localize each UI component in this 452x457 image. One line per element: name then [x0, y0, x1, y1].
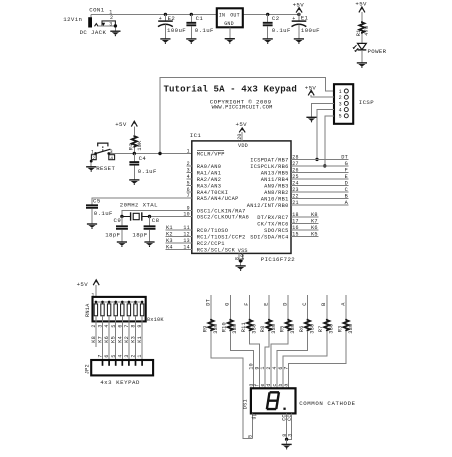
+5V supply at reset	[115, 121, 137, 128]
svg-text:3: 3	[287, 434, 293, 437]
svg-text:RA1/AN1: RA1/AN1	[197, 171, 221, 177]
svg-text:K6: K6	[311, 225, 318, 231]
svg-text:C9: C9	[114, 217, 122, 224]
svg-text:D: D	[345, 180, 348, 186]
pin 10 OSC2/CLKOUT/RA6	[183, 212, 249, 221]
svg-text:0.1uF: 0.1uF	[272, 27, 291, 34]
svg-text:K8: K8	[91, 336, 97, 343]
svg-text:7: 7	[98, 354, 104, 357]
op-amp U1: microcontroller IC1 PIC16F722 box	[190, 132, 296, 263]
wire 12V rail left	[91, 13, 217, 15]
svg-text:WWW.PICCIRCUIT.COM: WWW.PICCIRCUIT.COM	[212, 105, 273, 111]
+5V supply at RN1A	[77, 280, 100, 288]
svg-text:2: 2	[92, 155, 95, 161]
svg-text:K4: K4	[117, 336, 123, 343]
pin 15 SDI/SDA/RC4 / node K5	[250, 231, 318, 240]
node K4 (pin 14 stub)	[166, 244, 192, 250]
svg-text:4: 4	[339, 108, 342, 114]
svg-text:5: 5	[339, 114, 342, 120]
svg-text:3: 3	[109, 21, 112, 27]
ground of regulator	[225, 39, 235, 44]
wire ICSP pin4 to ICSPDAT	[317, 110, 334, 160]
svg-text:K8: K8	[311, 212, 318, 218]
svg-text:R7: R7	[318, 326, 324, 333]
svg-text:3: 3	[110, 149, 113, 155]
svg-text:R1: R1	[356, 30, 362, 37]
svg-text:AN9/RB3: AN9/RB3	[264, 184, 288, 190]
connector CON1 DC JACK	[63, 7, 115, 36]
svg-text:K3: K3	[166, 238, 173, 244]
wire VSS to ground	[240, 261, 242, 266]
svg-text:R3: R3	[337, 326, 343, 333]
svg-text:470: 470	[364, 26, 370, 36]
svg-text:RN1A: RN1A	[85, 303, 91, 317]
svg-text:VDD: VDD	[238, 143, 248, 149]
svg-text:AN8/RB2: AN8/RB2	[264, 190, 288, 196]
junction E1 / +5V	[297, 13, 300, 16]
resistor R3 330	[337, 319, 354, 334]
+5V supply at ICSP	[305, 84, 317, 95]
svg-text:SDO/RC5: SDO/RC5	[264, 228, 288, 234]
svg-text:1: 1	[91, 149, 94, 155]
wire F to resistor	[249, 295, 251, 319]
wire +5V to rail	[298, 12, 300, 14]
svg-text:1: 1	[339, 89, 342, 95]
capacitor C2	[263, 14, 291, 39]
wire OSC1 to crystal	[122, 210, 192, 216]
svg-text:IN: IN	[219, 13, 225, 19]
svg-text:0.1uF: 0.1uF	[94, 210, 113, 217]
wire DT to display pin 5	[211, 331, 252, 438]
svg-text:+5V: +5V	[293, 1, 305, 8]
capacitor C9 18pF	[105, 217, 128, 243]
svg-text:18pF: 18pF	[132, 231, 147, 238]
svg-text:DC JACK: DC JACK	[80, 29, 107, 36]
svg-text:1: 1	[137, 354, 143, 357]
svg-text:2: 2	[187, 161, 190, 167]
wire CC to ground	[286, 439, 288, 444]
resistor R6 330	[299, 319, 316, 334]
wire ICSP pin3 to ground	[312, 103, 335, 117]
capacitor E2 (electrolytic)	[158, 14, 186, 39]
svg-text:OSC2/CLKOUT/RA6: OSC2/CLKOUT/RA6	[197, 215, 249, 221]
svg-text:AN11/RB4: AN11/RB4	[261, 177, 289, 183]
svg-text:R9: R9	[202, 326, 208, 333]
svg-text:20: 20	[237, 133, 243, 139]
ground of CON1	[110, 31, 120, 36]
svg-text:K5: K5	[111, 336, 117, 343]
wire G to display	[230, 331, 253, 388]
svg-text:Tutorial 5A - 4x3 Keypad: Tutorial 5A - 4x3 Keypad	[164, 84, 297, 95]
svg-text:AN10/RB1: AN10/RB1	[261, 197, 289, 203]
svg-text:OUT: OUT	[230, 13, 240, 19]
wire E to display	[265, 331, 269, 388]
wire K8 stub	[95, 321, 97, 347]
svg-text:RC2/CCP1: RC2/CCP1	[197, 241, 225, 247]
svg-text:23: 23	[292, 187, 298, 193]
ground of C5	[87, 224, 97, 229]
svg-text:RA2/AN2: RA2/AN2	[197, 177, 221, 183]
svg-text:100uF: 100uF	[301, 27, 320, 34]
svg-text:330: 330	[213, 324, 219, 334]
pin 24 AN9/RB3 / node D	[264, 180, 348, 189]
pin 6 RA4/T0CKI	[186, 187, 228, 196]
pin 2 RA0/AN0	[186, 161, 221, 170]
wire K2 to JP2	[128, 321, 130, 360]
svg-text:4: 4	[117, 354, 123, 357]
svg-text:+: +	[159, 16, 162, 22]
ground of ICSP	[306, 117, 316, 122]
svg-text:RC3/SCL/SCK: RC3/SCL/SCK	[197, 248, 236, 254]
svg-text:K6: K6	[104, 336, 110, 343]
svg-text:R11: R11	[241, 322, 247, 332]
pin 13 RC2/CCP1	[183, 238, 224, 247]
MCLR overline	[197, 150, 224, 152]
svg-text:C5: C5	[93, 198, 101, 205]
svg-text:E1: E1	[301, 15, 309, 22]
svg-text:a: a	[284, 383, 290, 386]
crystal X1 20MHz	[122, 212, 150, 220]
connector JP2 4x3 KEYPAD	[84, 360, 153, 386]
pin 18 DT/RX/RC7 / node K8	[257, 212, 318, 221]
wire RA5 to C5	[92, 198, 192, 205]
pin 26 AN13/RB5 / node F	[261, 167, 349, 176]
ground of SW1	[86, 167, 96, 172]
junction ICSPCLK	[323, 164, 326, 167]
svg-text:C4: C4	[139, 155, 147, 162]
svg-text:R6: R6	[299, 326, 305, 333]
svg-text:24: 24	[292, 181, 298, 187]
wire DT to resistor	[210, 295, 212, 319]
+5V supply at VDD	[236, 121, 248, 132]
svg-text:C: C	[345, 187, 348, 193]
+5V supply for power LED	[355, 1, 367, 13]
svg-text:2: 2	[110, 15, 113, 21]
svg-text:R10: R10	[222, 322, 228, 332]
svg-text:+: +	[292, 16, 295, 22]
svg-text:21: 21	[292, 200, 298, 206]
wire C to resistor	[307, 295, 309, 319]
node K1 (pin 11 stub)	[166, 225, 192, 231]
wire OSC2 to crystal	[150, 216, 192, 218]
svg-text:COMMON CATHODE: COMMON CATHODE	[299, 400, 355, 407]
junction ICSP wire	[158, 152, 161, 155]
ground of VSS	[236, 266, 246, 271]
svg-text:330: 330	[329, 324, 335, 334]
svg-text:dp: dp	[252, 413, 258, 419]
svg-text:RC0/T1OSO: RC0/T1OSO	[197, 228, 228, 234]
ground of E1	[294, 39, 304, 44]
svg-text:K4: K4	[166, 244, 173, 250]
svg-text:17: 17	[292, 219, 298, 225]
svg-text:3: 3	[124, 354, 130, 357]
svg-text:C2: C2	[272, 15, 280, 22]
svg-text:GND: GND	[224, 21, 234, 27]
svg-text:SDI/SDA/RC4: SDI/SDA/RC4	[250, 235, 288, 241]
ground of C8	[144, 242, 154, 247]
svg-text:1: 1	[187, 149, 190, 155]
ground of C2	[263, 39, 273, 44]
svg-text:330: 330	[348, 324, 354, 334]
svg-text:RA5/AN4/UCAP: RA5/AN4/UCAP	[197, 196, 239, 202]
capacitor C8 18pF	[132, 217, 159, 243]
wire K1 to JP2	[141, 321, 143, 360]
svg-text:4x3 KEYPAD: 4x3 KEYPAD	[100, 379, 140, 386]
svg-text:4: 4	[110, 155, 113, 161]
wire K7 to JP2	[102, 321, 104, 360]
svg-text:8x10K: 8x10K	[147, 317, 165, 323]
svg-text:CON1: CON1	[89, 7, 104, 14]
wire display pin 8 stub	[286, 413, 288, 439]
svg-text:OSC1/CLKIN/RA7: OSC1/CLKIN/RA7	[197, 209, 246, 215]
svg-text:0.1uF: 0.1uF	[195, 27, 214, 34]
svg-text:B: B	[345, 193, 348, 199]
pushbutton SW1 RESET	[90, 143, 116, 172]
pin 14 RC3/SCL/SCK	[183, 245, 235, 254]
wire K3 to JP2	[135, 321, 137, 360]
wire D to display	[271, 331, 288, 388]
junction C1	[190, 13, 193, 16]
svg-text:19: 19	[240, 254, 246, 260]
ground of power LED	[357, 63, 367, 68]
svg-text:20MHz XTAL: 20MHz XTAL	[120, 201, 158, 208]
resistor R5 330	[280, 319, 297, 334]
svg-text:POWER: POWER	[368, 48, 387, 55]
voltage regulator VR1	[217, 8, 243, 38]
ground of C9	[117, 242, 127, 247]
svg-text:DT/RX/RC7: DT/RX/RC7	[257, 215, 288, 221]
svg-text:+5V: +5V	[77, 281, 89, 288]
svg-text:K5: K5	[311, 231, 318, 237]
svg-text:5: 5	[111, 354, 117, 357]
wire +5V to R4	[133, 126, 135, 135]
svg-text:C8: C8	[152, 217, 160, 224]
wire A to display	[289, 331, 347, 388]
svg-text:K7: K7	[98, 336, 104, 343]
svg-text:E: E	[345, 174, 348, 180]
svg-text:5: 5	[247, 435, 253, 438]
resistor R8 330	[260, 319, 277, 334]
wire display pin 3 stub	[287, 413, 292, 439]
svg-text:RA0/AN0: RA0/AN0	[197, 164, 221, 170]
svg-text:330: 330	[252, 324, 258, 334]
resistor R11 330	[241, 319, 258, 334]
wire E to resistor	[268, 295, 270, 319]
wire B to display	[283, 331, 327, 388]
svg-text:K2: K2	[166, 231, 173, 237]
pin 5 RA3/AN3	[186, 181, 221, 190]
resistor network RN1A 8x10K	[85, 297, 165, 323]
node K3 (pin 13 stub)	[166, 238, 192, 244]
pin 28 ICSPDAT/RB7 / node DT	[250, 154, 348, 163]
wire 5V rail right	[243, 13, 299, 15]
svg-text:330: 330	[271, 324, 277, 334]
pin 21 AN12/INT/RB0 / node A	[247, 200, 349, 209]
wire F to display	[250, 331, 260, 388]
wire display pin 5 stub	[251, 413, 253, 438]
junction E2	[164, 13, 167, 16]
wire B to resistor	[326, 295, 328, 319]
pin 1 MCLR/VPP	[187, 149, 225, 158]
wire +5V to RN1A common	[95, 285, 97, 302]
resistor R4 10K	[128, 135, 143, 150]
wire R1 to LED	[361, 34, 363, 44]
ground of E2	[160, 39, 170, 44]
wire ICSP pin5 to ICSPCLK	[325, 116, 334, 166]
svg-text:K1: K1	[166, 225, 173, 231]
junction CON1 pin3	[114, 24, 117, 27]
svg-text:K2: K2	[124, 336, 130, 343]
svg-text:K3: K3	[131, 336, 137, 343]
svg-text:27: 27	[292, 161, 298, 167]
capacitor C4	[129, 154, 157, 180]
resistor R7 330	[318, 319, 335, 334]
resistor R1 470	[356, 21, 370, 36]
wire MCLR to ICSP pin1	[160, 77, 334, 153]
junction CC	[285, 438, 288, 441]
wire K4 to JP2	[121, 321, 123, 360]
svg-text:F: F	[345, 167, 348, 173]
svg-text:AN13/RB5: AN13/RB5	[261, 171, 289, 177]
wire K5 to JP2	[115, 321, 117, 360]
pin 9 OSC1/CLKIN/RA7	[187, 206, 246, 215]
svg-text:6: 6	[104, 354, 110, 357]
svg-text:K7: K7	[311, 218, 318, 224]
wire K6 to JP2	[108, 321, 110, 360]
svg-text:2: 2	[339, 95, 342, 101]
svg-text:RA3/AN3: RA3/AN3	[197, 184, 221, 190]
capacitor C1	[186, 14, 214, 39]
pin 16 SDO/RC5 / node K6	[264, 225, 318, 234]
svg-text:5: 5	[187, 181, 190, 187]
svg-text:3: 3	[339, 101, 342, 107]
svg-text:26: 26	[292, 168, 298, 174]
junction VSS	[239, 259, 242, 262]
wire D to resistor	[287, 295, 289, 319]
pin 11 RC0/T1OSO	[183, 225, 228, 234]
svg-text:MCLR/VPP: MCLR/VPP	[197, 152, 225, 158]
pin 17 CK/TX/RC6 / node K7	[257, 218, 318, 227]
svg-text:330: 330	[232, 324, 238, 334]
svg-text:330: 330	[309, 324, 315, 334]
svg-text:E2: E2	[168, 15, 176, 22]
pin 25 AN11/RB4 / node E	[261, 174, 349, 183]
wire VSS pins	[239, 253, 243, 261]
resistor R9 330	[202, 319, 219, 334]
svg-text:AN12/INT/RB0: AN12/INT/RB0	[247, 203, 289, 209]
ground of display	[282, 444, 292, 449]
capacitor C5	[86, 198, 113, 224]
svg-text:R8: R8	[260, 326, 266, 333]
pin 27 ICSPCLK/RB6 / node G	[250, 161, 348, 170]
LED POWER	[353, 43, 387, 55]
wire VDD pin 20	[241, 132, 243, 141]
junction C9/crystal	[120, 215, 123, 218]
svg-text:10K: 10K	[137, 140, 143, 151]
svg-text:15: 15	[292, 232, 298, 238]
svg-text:0.1uF: 0.1uF	[138, 168, 157, 175]
svg-text:18: 18	[292, 212, 298, 218]
junction C2	[266, 13, 269, 16]
svg-text:ICSPDAT/RB7: ICSPDAT/RB7	[250, 158, 288, 164]
svg-text:RC1/T1OSI/CCP2: RC1/T1OSI/CCP2	[197, 235, 246, 241]
wire +5V to ICSP pin2	[311, 95, 334, 97]
pin 22 AN10/RB1 / node B	[261, 193, 349, 202]
wire LED to ground	[361, 50, 363, 63]
svg-text:330: 330	[290, 324, 296, 334]
wire +5V to R1	[361, 12, 363, 21]
wire MCLR net	[109, 153, 192, 155]
svg-text:4: 4	[187, 174, 190, 180]
svg-text:16: 16	[292, 225, 298, 231]
title text	[164, 84, 297, 111]
ground of C1	[186, 39, 196, 44]
junction R4/C4	[133, 152, 136, 155]
svg-text:3: 3	[187, 168, 190, 174]
svg-text:2: 2	[131, 354, 137, 357]
svg-text:C1: C1	[196, 15, 204, 22]
junction C8/crystal	[148, 215, 151, 218]
resistor R10 330	[222, 319, 239, 334]
svg-text:R5: R5	[280, 326, 286, 333]
wire A to resistor	[345, 295, 347, 319]
pin 3 RA1/AN1	[186, 168, 221, 177]
svg-text:ICSPCLK/RB6: ICSPCLK/RB6	[250, 164, 288, 170]
+5V supply at E1	[293, 1, 305, 12]
svg-text:PIC16F722: PIC16F722	[261, 256, 296, 263]
svg-text:CC: CC	[287, 414, 293, 420]
wire C to display	[277, 331, 308, 388]
svg-text:JP2: JP2	[84, 364, 90, 374]
svg-text:22: 22	[292, 194, 298, 200]
node K2 (pin 12 stub)	[166, 231, 192, 237]
svg-text:K1: K1	[137, 336, 143, 343]
svg-text:18pF: 18pF	[105, 231, 120, 238]
ground of C4	[129, 180, 139, 185]
svg-text:DT: DT	[341, 154, 348, 160]
pin 7 RA5/AN4/UCAP	[187, 193, 239, 202]
svg-text:RESET: RESET	[96, 165, 115, 172]
pin 12 RC1/T1OSI/CCP2	[183, 232, 245, 241]
junction ICSPDAT	[315, 158, 318, 161]
wire R4 to MCLR net	[133, 148, 135, 154]
capacitor E1 (electrolytic)	[292, 14, 321, 39]
svg-text:+5V: +5V	[236, 121, 248, 128]
svg-text:CK/TX/RC6: CK/TX/RC6	[257, 222, 288, 228]
7-segment display DS1	[242, 388, 355, 413]
svg-text:+5V: +5V	[115, 121, 127, 128]
svg-text:25: 25	[292, 174, 298, 180]
svg-text:12Vin: 12Vin	[63, 16, 82, 23]
svg-text:ICSP: ICSP	[359, 99, 374, 106]
svg-text:28: 28	[292, 155, 298, 161]
wire G to resistor	[229, 295, 231, 319]
svg-text:+5V: +5V	[355, 1, 367, 8]
svg-text:G: G	[345, 161, 348, 167]
svg-text:7: 7	[284, 366, 290, 369]
pin 23 AN8/RB2 / node C	[264, 187, 348, 196]
svg-text:DS1: DS1	[242, 399, 248, 409]
svg-text:R4: R4	[128, 143, 134, 150]
pin 4 RA2/AN2	[186, 174, 221, 183]
connector ICSP	[334, 84, 374, 124]
svg-text:VSS: VSS	[238, 248, 248, 254]
svg-text:100uF: 100uF	[167, 27, 186, 34]
svg-text:IC1: IC1	[190, 132, 202, 139]
